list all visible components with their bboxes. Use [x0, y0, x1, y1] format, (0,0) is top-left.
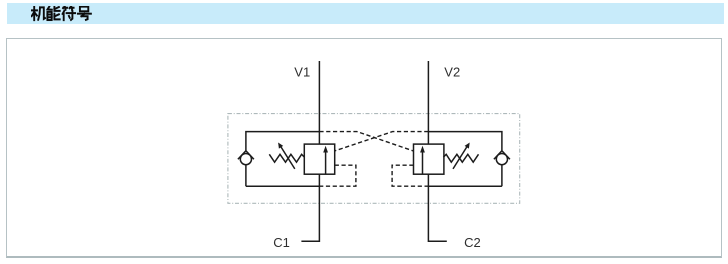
valve U2 flow arrow: [422, 152, 424, 174]
spring S2 (adjustable zigzag): [443, 154, 478, 162]
check valve CV2 ball: [496, 154, 507, 165]
valve U1 body: [304, 144, 334, 174]
wire C1 vertical with corner stub: [301, 174, 319, 241]
spring S1 (adjustable zigzag): [269, 154, 304, 162]
title 机能符号 (drawn as vector strokes): [31, 6, 92, 22]
pilot line from V1 to valve U2 (crossing): [319, 132, 413, 151]
wire C2 vertical with corner stub: [428, 174, 446, 241]
valve U2 body: [414, 144, 444, 174]
glyph 机: [32, 7, 45, 20]
drain line valve U1: [319, 165, 356, 186]
wire V1 vertical (port V1 to valve U1 top): [318, 61, 320, 144]
spring S1 adjustment arrow: [281, 147, 295, 169]
check valve CV1 seat: [238, 151, 254, 160]
valve body boundary (dash-dot rectangle): [228, 114, 520, 204]
valve U1 flow arrow: [325, 152, 327, 174]
wire check loop left: top, left side, bottom: [246, 132, 320, 187]
svg-text:C2: C2: [464, 235, 481, 250]
pilot line from V2 to valve U1 (crossing): [335, 132, 429, 151]
check valve CV1 ball: [240, 154, 251, 165]
svg-text:V2: V2: [444, 64, 460, 79]
glyph 号: [78, 7, 91, 20]
glyph 能: [47, 6, 59, 20]
svg-text:V1: V1: [294, 64, 310, 79]
check valve CV2 seat: [494, 151, 510, 160]
drain line valve U2: [392, 165, 428, 186]
spring S2 adjustment arrow: [453, 147, 467, 169]
svg-text:C1: C1: [273, 235, 290, 250]
header bar: [7, 3, 724, 24]
glyph 符: [63, 6, 76, 20]
wire V2 vertical (port V2 to valve U2 top): [427, 61, 429, 144]
wire check loop right: top, right side, bottom: [428, 132, 502, 187]
